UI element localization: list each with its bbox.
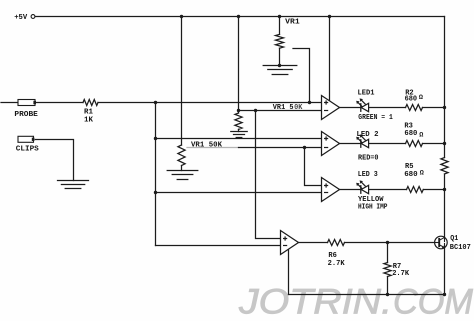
wire R6 to Q1 base [345, 242, 435, 244]
svg-text:VR1 5: VR1 5 [273, 104, 294, 112]
op-amp U2 [322, 132, 340, 156]
potentiometer VR1 50K lower [178, 145, 185, 166]
wire R3 to rail [423, 143, 445, 145]
wire U1 - node down to U4 + input [256, 111, 281, 239]
ground below VR1 50K upper [231, 131, 247, 133]
wire probe lead-in [1, 102, 18, 104]
wire VR1 50K lower wiper (faded) [187, 147, 239, 149]
svg-text:LED1: LED1 [358, 89, 375, 97]
svg-text:BC107: BC107 [450, 244, 471, 252]
wire probe node vertical [155, 103, 157, 246]
wire R7 to bottom rail [387, 277, 389, 295]
wire U4 output to R6 [299, 242, 328, 244]
wire U2 output to LED2 [340, 143, 361, 145]
wire Q1 emitter down to bottom rail [444, 248, 446, 295]
svg-text:0K: 0K [294, 104, 303, 112]
op-amp U3 [322, 178, 340, 202]
svg-text:2.7K: 2.7K [392, 270, 409, 278]
wire VR1 to ground [279, 48, 281, 65]
wire R7 top [387, 243, 389, 263]
svg-text:Ω: Ω [419, 94, 423, 102]
wire VR1 wiper to probe line [293, 49, 310, 103]
svg-text:COM: COM [393, 283, 474, 321]
LED3 [360, 185, 362, 194]
svg-text:+5V: +5V [14, 14, 27, 22]
svg-text:RED=0: RED=0 [358, 155, 379, 163]
svg-text:1K: 1K [84, 117, 93, 125]
svg-text:680: 680 [405, 96, 418, 104]
svg-text:Ω: Ω [420, 170, 424, 178]
wire to U2 - input [239, 147, 322, 149]
svg-text:VR1 50K: VR1 50K [191, 141, 222, 149]
transistor Q1 [435, 236, 448, 249]
resistor R4 (680 ohm) [407, 187, 424, 193]
wire VR1 lower to ground [181, 166, 183, 171]
wire bottom rail [289, 294, 446, 296]
op-amp U1 [322, 96, 340, 120]
wire right +5V rail down to R5 [444, 17, 446, 158]
wire LED3 to R4 [369, 189, 407, 191]
wire R1 to op-amp U1 + input [98, 102, 322, 104]
svg-text:CLIPS: CLIPS [16, 146, 39, 154]
potentiometer VR1 top [276, 34, 284, 48]
wire probe node to U2 + input [156, 138, 322, 140]
resistor R7 [384, 263, 391, 277]
potentiometer VR1 50K upper [235, 113, 242, 129]
wire VR1 50K upper branch from rail [238, 17, 240, 114]
wire LED1 to R2 [369, 107, 406, 109]
resistor R3 [406, 141, 423, 147]
wire +5V rail [35, 16, 444, 18]
ground below CLIPS [58, 180, 89, 182]
wire VR1 upper to ground [238, 129, 240, 131]
resistor R5 vertical on rail [441, 158, 448, 175]
wire VR1 top branch from rail [279, 17, 281, 35]
svg-text:R6: R6 [328, 252, 337, 260]
svg-text:Q1: Q1 [450, 235, 458, 243]
wire R2 to rail [423, 107, 445, 109]
wire U3 output to LED3 [340, 189, 361, 191]
wire LED2 to R3 [369, 143, 406, 145]
wire VR1 50K upper tap to U1 - input [239, 110, 322, 112]
connector CLIPS [18, 136, 34, 142]
svg-text:2.7K: 2.7K [328, 260, 345, 268]
svg-text:LED 2: LED 2 [357, 131, 379, 139]
svg-text:680: 680 [404, 130, 417, 138]
wire U1 output to LED1 [340, 107, 361, 109]
wire probe node to U3 - input [156, 192, 322, 194]
svg-text:R3: R3 [404, 122, 413, 130]
wire CLIPS to ground [35, 140, 73, 181]
svg-text:R5: R5 [405, 163, 414, 171]
wire PROBE to R1 [35, 102, 83, 104]
wire R4 to collector node [423, 189, 444, 191]
LED2 [360, 139, 362, 148]
wire R5 to Q1 collector [444, 174, 446, 237]
connector PROBE [18, 100, 35, 106]
svg-text:HIGH IMP: HIGH IMP [358, 203, 388, 211]
wire VR1 lower branch from rail [181, 17, 183, 146]
LED1 [360, 103, 362, 112]
wire U4 ground stub [288, 249, 290, 294]
resistor R6 [328, 240, 345, 246]
op-amp U4 [281, 231, 299, 255]
watermark JOTRIN.COM [238, 283, 474, 321]
svg-text:VR1: VR1 [285, 18, 300, 26]
svg-text:680: 680 [404, 171, 418, 179]
svg-text:JOTRIN.: JOTRIN. [238, 283, 392, 321]
svg-text:GREEN = 1: GREEN = 1 [358, 114, 393, 122]
wire U2 - node down to U3 + input [305, 148, 322, 186]
ground below VR1 50K lower [167, 170, 198, 172]
resistor R2 [406, 105, 423, 111]
resistor R1 [83, 100, 98, 106]
ground below VR1 [263, 65, 297, 67]
wire op-amp U1 supply from rail [329, 17, 331, 102]
svg-text:R1: R1 [84, 109, 93, 117]
svg-text:PROBE: PROBE [14, 111, 38, 119]
svg-text:LED 3: LED 3 [358, 171, 378, 179]
+5V supply terminal [31, 15, 35, 19]
wire probe node to U4 - input [156, 245, 281, 247]
svg-text:Ω: Ω [419, 132, 423, 140]
